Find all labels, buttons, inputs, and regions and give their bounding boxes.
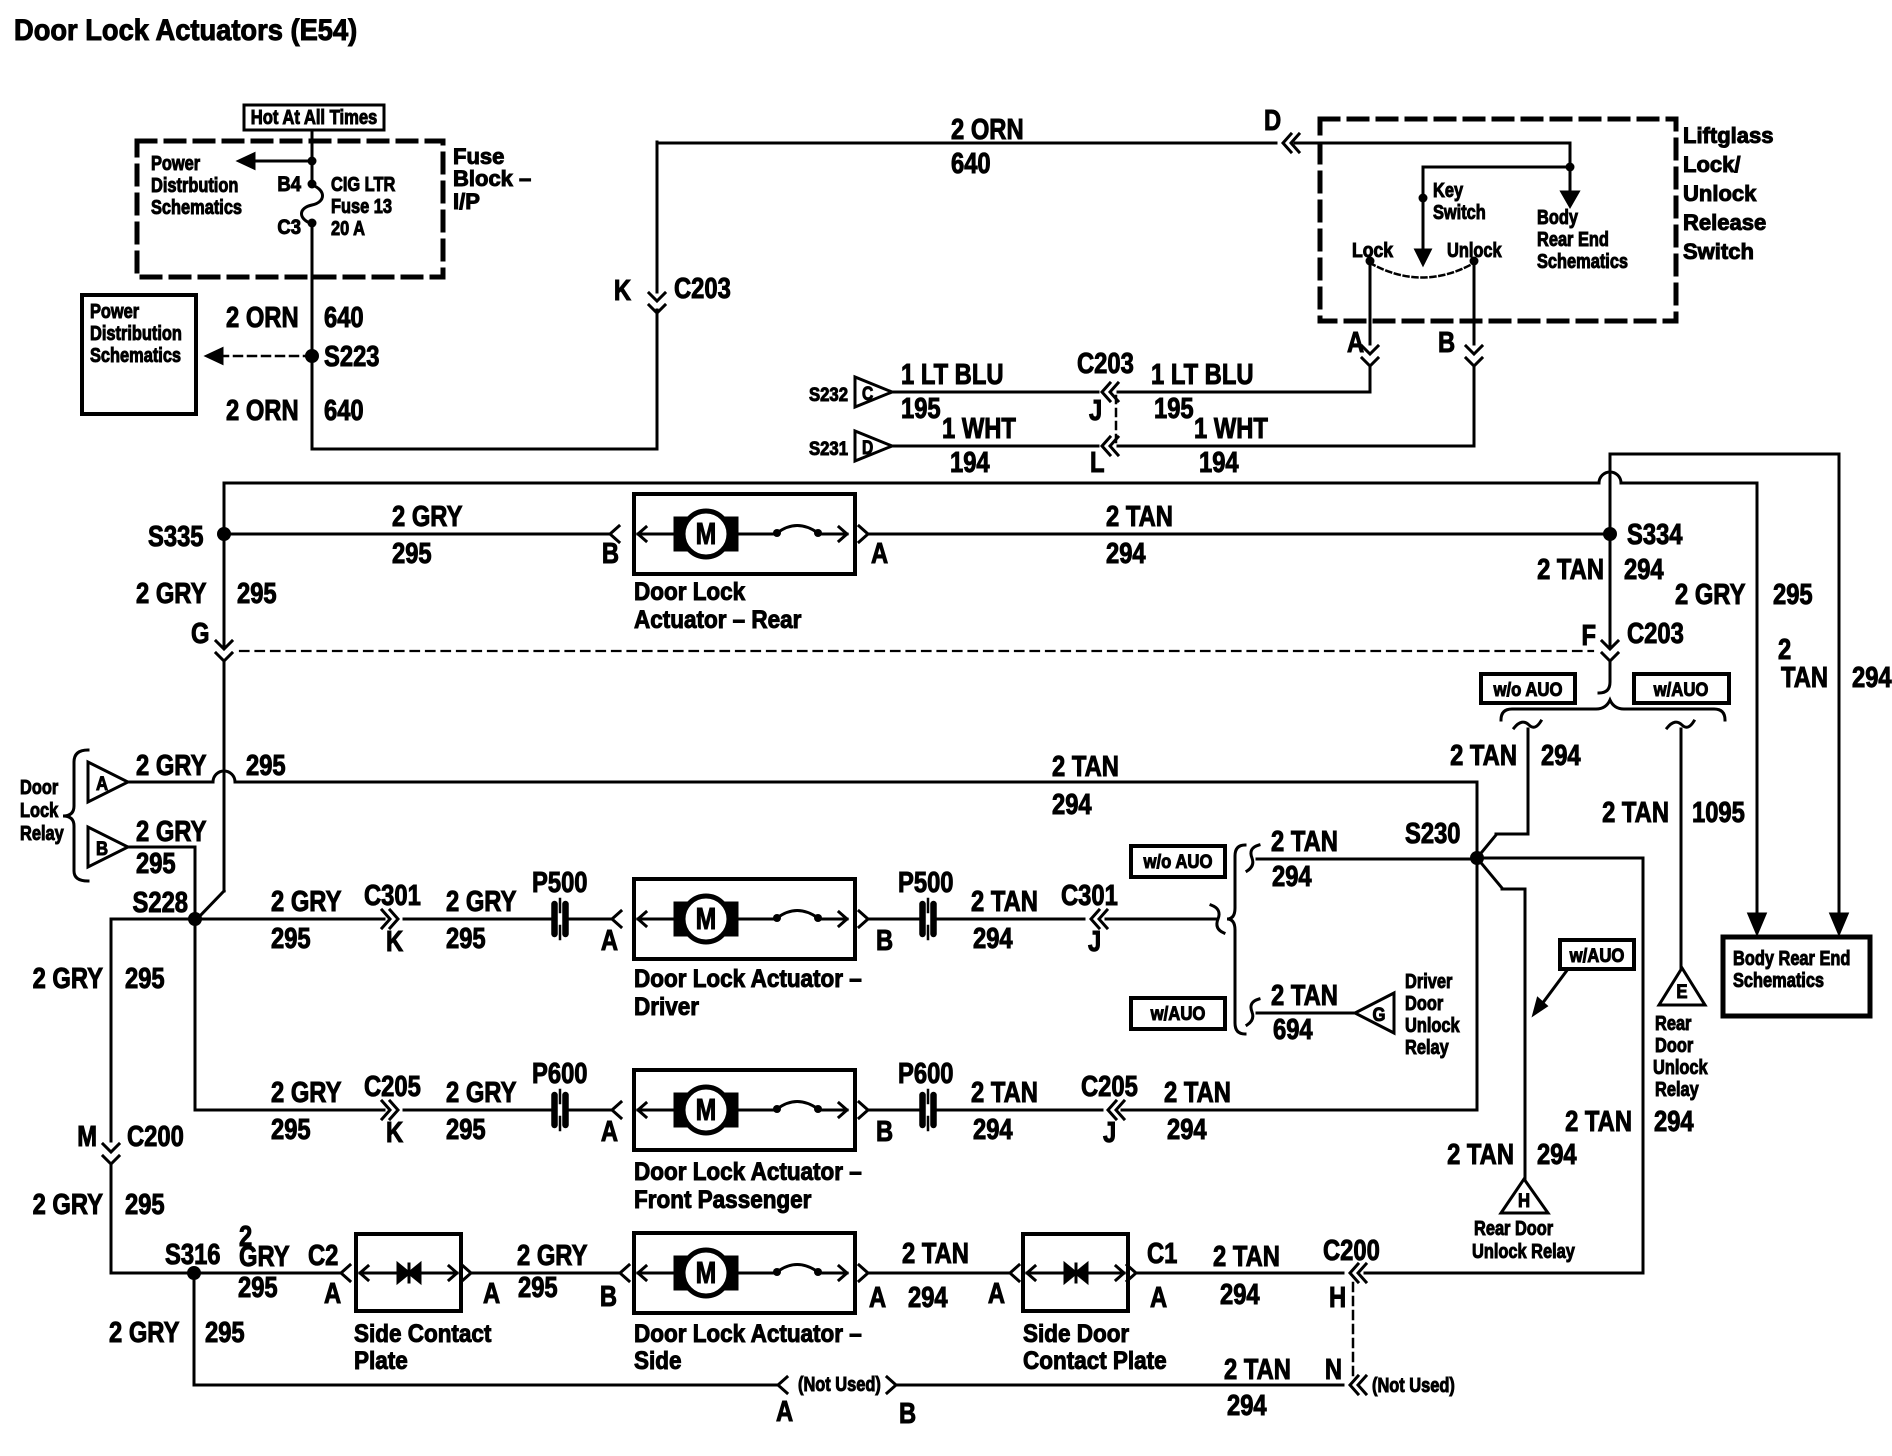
svg-text:P600: P600 [532, 1057, 587, 1090]
svg-text:294: 294 [908, 1281, 948, 1314]
svg-text:295: 295 [238, 1271, 278, 1304]
svg-text:Unlock Relay: Unlock Relay [1472, 1239, 1576, 1262]
svg-text:2 TAN: 2 TAN [1106, 500, 1173, 533]
svg-text:640: 640 [324, 394, 364, 427]
svg-text:Body: Body [1537, 205, 1579, 228]
svg-text:M: M [696, 1255, 717, 1289]
svg-text:2 GRY: 2 GRY [392, 500, 463, 533]
svg-text:C3: C3 [277, 216, 301, 239]
svg-text:2 ORN: 2 ORN [226, 394, 299, 427]
svg-text:Plate: Plate [354, 1347, 408, 1375]
svg-text:2 TAN: 2 TAN [1447, 1138, 1514, 1171]
svg-text:C301: C301 [1061, 879, 1118, 912]
svg-text:Schematics: Schematics [151, 195, 242, 218]
svg-text:Lock: Lock [1352, 239, 1394, 261]
svg-text:M: M [696, 1092, 717, 1126]
svg-text:(Not Used): (Not Used) [1372, 1373, 1455, 1396]
svg-text:S316: S316 [165, 1238, 220, 1271]
svg-text:P500: P500 [898, 866, 953, 899]
svg-text:S335: S335 [148, 520, 203, 553]
svg-text:Door: Door [20, 775, 58, 798]
svg-text:Schematics: Schematics [90, 343, 181, 366]
svg-text:2 GRY: 2 GRY [136, 815, 207, 848]
svg-text:295: 295 [125, 1188, 165, 1221]
svg-text:G: G [1373, 1004, 1386, 1025]
svg-text:194: 194 [950, 446, 990, 479]
svg-text:P500: P500 [532, 866, 587, 899]
svg-text:2 TAN: 2 TAN [1213, 1240, 1280, 1273]
svg-text:Distribution: Distribution [90, 321, 182, 344]
svg-text:Hot At All Times: Hot At All Times [251, 106, 378, 129]
svg-text:B: B [96, 838, 108, 859]
svg-text:B: B [602, 537, 619, 570]
svg-text:2 GRY: 2 GRY [33, 1188, 104, 1221]
svg-text:M: M [77, 1120, 97, 1153]
svg-text:295: 295 [271, 922, 311, 955]
svg-text:B4: B4 [277, 173, 301, 196]
svg-text:Driver: Driver [634, 993, 699, 1021]
svg-text:2 GRY: 2 GRY [1675, 578, 1746, 611]
svg-text:Release: Release [1683, 210, 1766, 235]
svg-text:M: M [696, 901, 717, 935]
svg-text:295: 295 [518, 1271, 558, 1304]
svg-text:D: D [862, 437, 873, 459]
svg-text:A: A [601, 1115, 618, 1148]
svg-text:Switch: Switch [1683, 239, 1754, 264]
svg-text:Side: Side [634, 1347, 681, 1375]
svg-text:w/AUO: w/AUO [1653, 679, 1709, 700]
svg-text:Power: Power [151, 151, 200, 174]
svg-text:294: 294 [1227, 1389, 1267, 1422]
svg-text:2 TAN: 2 TAN [1450, 739, 1517, 772]
svg-text:2 GRY: 2 GRY [136, 749, 207, 782]
svg-text:Lock: Lock [20, 798, 59, 821]
svg-text:2 TAN: 2 TAN [1271, 825, 1338, 858]
svg-text:Door Lock Actuators (E54): Door Lock Actuators (E54) [14, 14, 357, 47]
svg-text:Door Lock: Door Lock [634, 578, 746, 606]
svg-text:2 GRY: 2 GRY [136, 577, 207, 610]
svg-text:CIG LTR: CIG LTR [331, 172, 395, 195]
svg-text:Distrbution: Distrbution [151, 173, 238, 196]
svg-text:S228: S228 [133, 886, 188, 919]
svg-text:C205: C205 [1081, 1070, 1138, 1103]
svg-text:Door Lock Actuator –: Door Lock Actuator – [634, 965, 862, 993]
svg-text:C1: C1 [1147, 1237, 1177, 1270]
svg-text:Actuator – Rear: Actuator – Rear [634, 606, 801, 634]
svg-text:2 TAN: 2 TAN [1602, 796, 1669, 829]
svg-text:1 WHT: 1 WHT [942, 412, 1016, 445]
svg-text:294: 294 [973, 922, 1013, 955]
svg-text:295: 295 [237, 577, 277, 610]
svg-text:294: 294 [1537, 1138, 1577, 1171]
svg-text:TAN: TAN [1781, 661, 1828, 694]
svg-text:295: 295 [136, 847, 176, 880]
svg-text:A: A [324, 1277, 341, 1310]
svg-text:B: B [600, 1280, 617, 1313]
svg-text:Unlock: Unlock [1653, 1055, 1708, 1078]
svg-text:Relay: Relay [20, 821, 64, 844]
svg-text:20 A: 20 A [331, 216, 365, 239]
svg-text:K: K [386, 925, 403, 958]
svg-text:C2: C2 [308, 1239, 338, 1272]
svg-text:B: B [876, 1115, 893, 1148]
svg-text:F: F [1581, 619, 1596, 652]
svg-text:2 GRY: 2 GRY [33, 962, 104, 995]
svg-text:w/o AUO: w/o AUO [1493, 679, 1563, 700]
svg-text:A: A [988, 1277, 1005, 1310]
svg-text:294: 294 [1654, 1105, 1694, 1138]
svg-text:I/P: I/P [453, 189, 480, 214]
svg-text:J: J [1103, 1116, 1116, 1149]
svg-text:Lock/: Lock/ [1683, 152, 1740, 177]
svg-text:S231: S231 [809, 438, 848, 459]
svg-text:A: A [869, 1281, 886, 1314]
svg-text:294: 294 [973, 1113, 1013, 1146]
svg-text:A: A [776, 1395, 793, 1428]
svg-text:294: 294 [1272, 860, 1312, 893]
svg-text:A: A [1150, 1281, 1167, 1314]
svg-text:C203: C203 [1077, 347, 1134, 380]
svg-text:K: K [614, 274, 631, 307]
svg-text:C200: C200 [127, 1120, 184, 1153]
svg-text:(Not Used): (Not Used) [798, 1372, 881, 1395]
svg-text:640: 640 [324, 301, 364, 334]
svg-text:294: 294 [1106, 537, 1146, 570]
svg-text:694: 694 [1273, 1013, 1313, 1046]
svg-text:2 GRY: 2 GRY [517, 1239, 588, 1272]
svg-text:J: J [1088, 925, 1101, 958]
svg-text:Key: Key [1433, 178, 1464, 201]
svg-text:Driver: Driver [1405, 969, 1452, 992]
svg-text:Side Door: Side Door [1023, 1320, 1129, 1348]
svg-text:Relay: Relay [1405, 1035, 1449, 1058]
svg-text:w/AUO: w/AUO [1150, 1003, 1206, 1024]
svg-text:P600: P600 [898, 1057, 953, 1090]
svg-text:S230: S230 [1405, 817, 1460, 850]
svg-text:2 TAN: 2 TAN [971, 885, 1038, 918]
svg-text:GRY: GRY [239, 1240, 290, 1273]
svg-text:2 GRY: 2 GRY [271, 885, 342, 918]
svg-text:2 TAN: 2 TAN [1565, 1105, 1632, 1138]
svg-text:H: H [1329, 1281, 1346, 1314]
svg-text:Front Passenger: Front Passenger [634, 1186, 811, 1214]
svg-text:Rear: Rear [1655, 1011, 1691, 1034]
svg-text:Unlock: Unlock [1447, 238, 1502, 261]
svg-text:2 TAN: 2 TAN [971, 1076, 1038, 1109]
svg-text:A: A [601, 924, 618, 957]
svg-text:295: 295 [271, 1113, 311, 1146]
svg-text:2 GRY: 2 GRY [109, 1316, 180, 1349]
svg-text:S334: S334 [1627, 518, 1683, 551]
svg-text:295: 295 [392, 537, 432, 570]
svg-text:2 ORN: 2 ORN [226, 301, 299, 334]
svg-text:Unlock: Unlock [1683, 181, 1757, 206]
svg-text:Door: Door [1655, 1033, 1693, 1056]
svg-text:Rear Door: Rear Door [1474, 1216, 1553, 1239]
svg-text:2 TAN: 2 TAN [902, 1237, 969, 1270]
svg-text:C200: C200 [1323, 1234, 1380, 1267]
svg-text:C203: C203 [674, 272, 731, 305]
svg-text:A: A [96, 773, 108, 794]
svg-text:w/AUO: w/AUO [1569, 945, 1625, 966]
svg-text:295: 295 [446, 922, 486, 955]
svg-text:A: A [871, 537, 888, 570]
svg-text:1 LT BLU: 1 LT BLU [901, 358, 1004, 391]
svg-text:C301: C301 [364, 879, 421, 912]
svg-text:2 TAN: 2 TAN [1271, 979, 1338, 1012]
svg-text:A: A [483, 1277, 500, 1310]
svg-text:2 TAN: 2 TAN [1164, 1076, 1231, 1109]
svg-text:S223: S223 [324, 340, 379, 373]
svg-text:2 TAN: 2 TAN [1537, 553, 1604, 586]
svg-text:294: 294 [1541, 739, 1581, 772]
svg-text:M: M [696, 516, 717, 550]
svg-text:194: 194 [1199, 446, 1239, 479]
svg-text:1 WHT: 1 WHT [1194, 412, 1268, 445]
svg-text:2 TAN: 2 TAN [1224, 1353, 1291, 1386]
svg-text:H: H [1518, 1190, 1530, 1211]
svg-text:C203: C203 [1627, 617, 1684, 650]
svg-text:1 LT BLU: 1 LT BLU [1151, 358, 1254, 391]
svg-text:295: 295 [205, 1316, 245, 1349]
svg-text:Switch: Switch [1433, 200, 1486, 223]
svg-text:S232: S232 [809, 384, 848, 405]
svg-text:C205: C205 [364, 1070, 421, 1103]
svg-text:Power: Power [90, 299, 139, 322]
svg-text:Schematics: Schematics [1537, 249, 1628, 272]
svg-text:C: C [862, 383, 874, 405]
svg-text:A: A [1347, 326, 1364, 359]
svg-text:2 TAN: 2 TAN [1052, 750, 1119, 783]
svg-text:Side Contact: Side Contact [354, 1320, 491, 1348]
svg-text:295: 295 [446, 1113, 486, 1146]
svg-text:B: B [876, 924, 893, 957]
svg-text:G: G [191, 617, 209, 650]
svg-text:2 GRY: 2 GRY [446, 885, 517, 918]
svg-text:195: 195 [1154, 392, 1194, 425]
svg-text:Door: Door [1405, 991, 1443, 1014]
svg-text:D: D [1264, 104, 1281, 137]
svg-text:Unlock: Unlock [1405, 1013, 1460, 1036]
svg-text:195: 195 [901, 392, 941, 425]
svg-text:E: E [1676, 981, 1687, 1002]
svg-text:Body Rear End: Body Rear End [1733, 946, 1850, 969]
svg-text:295: 295 [1773, 578, 1813, 611]
svg-text:Contact Plate: Contact Plate [1023, 1347, 1167, 1375]
svg-text:294: 294 [1220, 1278, 1260, 1311]
svg-text:Relay: Relay [1655, 1077, 1699, 1100]
svg-text:Rear End: Rear End [1537, 227, 1609, 250]
svg-text:2 ORN: 2 ORN [951, 113, 1024, 146]
svg-text:1095: 1095 [1692, 796, 1745, 829]
svg-text:J: J [1089, 394, 1102, 427]
svg-text:Door Lock Actuator –: Door Lock Actuator – [634, 1158, 862, 1186]
svg-text:Schematics: Schematics [1733, 968, 1824, 991]
svg-text:B: B [1438, 326, 1455, 359]
svg-text:Fuse 13: Fuse 13 [331, 194, 392, 217]
svg-text:294: 294 [1624, 553, 1664, 586]
svg-text:B: B [899, 1397, 916, 1430]
svg-text:640: 640 [951, 147, 991, 180]
svg-text:294: 294 [1852, 661, 1892, 694]
svg-text:Liftglass: Liftglass [1683, 123, 1773, 148]
svg-text:N: N [1325, 1353, 1342, 1386]
svg-text:294: 294 [1167, 1113, 1207, 1146]
svg-text:K: K [386, 1116, 403, 1149]
svg-text:Block –: Block – [453, 166, 531, 191]
svg-text:Door Lock Actuator –: Door Lock Actuator – [634, 1320, 862, 1348]
svg-text:L: L [1090, 446, 1105, 479]
svg-text:w/o AUO: w/o AUO [1143, 851, 1213, 872]
svg-text:2 GRY: 2 GRY [271, 1076, 342, 1109]
svg-text:295: 295 [246, 749, 286, 782]
svg-text:2 GRY: 2 GRY [446, 1076, 517, 1109]
svg-text:294: 294 [1052, 788, 1092, 821]
svg-text:295: 295 [125, 962, 165, 995]
